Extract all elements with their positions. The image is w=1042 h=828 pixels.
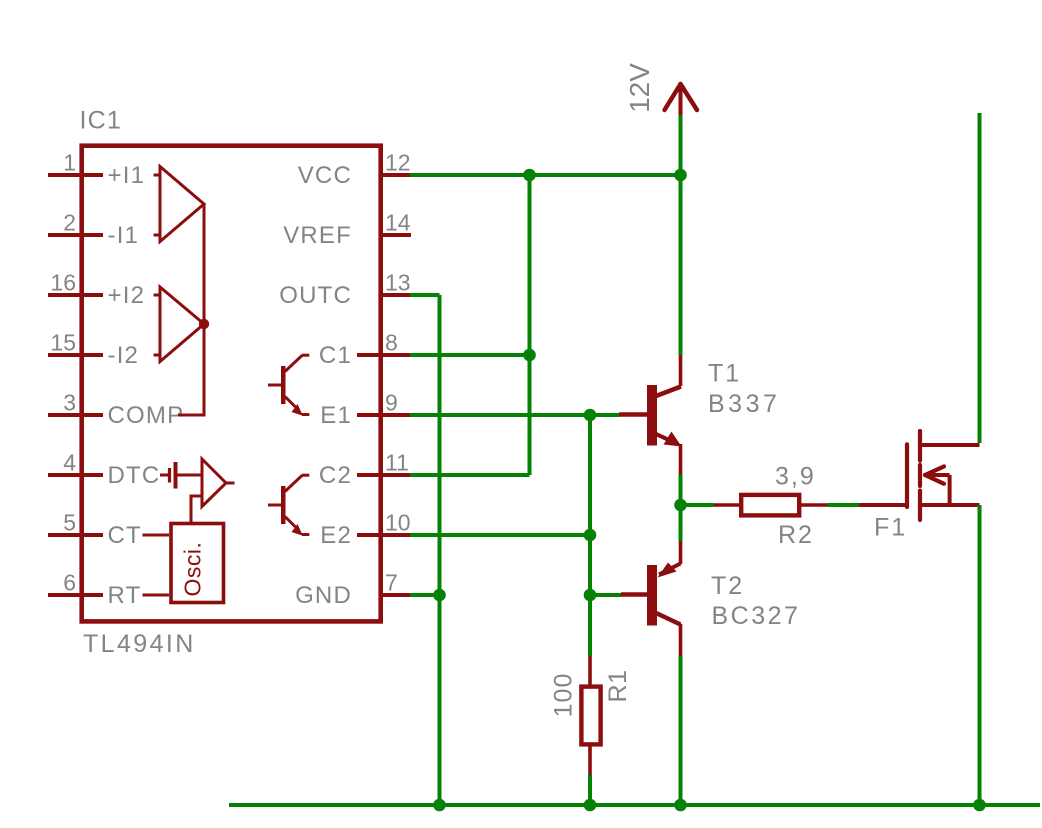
svg-text:3,9: 3,9	[775, 463, 816, 491]
svg-text:C1: C1	[319, 342, 352, 369]
CT to oscillator wire	[143, 534, 170, 537]
svg-text:CT: CT	[108, 522, 142, 549]
pin number 2	[63, 210, 76, 236]
svg-text:-I1: -I1	[108, 222, 140, 249]
svg-text:12: 12	[385, 150, 411, 176]
pin name DTC	[108, 462, 161, 489]
pin number 12	[385, 150, 411, 176]
pin 1 +I1 lead	[48, 173, 103, 177]
op-amp error amplifier 2	[154, 287, 205, 362]
wire 12V stem vertical	[679, 115, 683, 175]
junction dot E2	[584, 529, 597, 542]
pin number 11	[385, 450, 409, 476]
pin number 15	[50, 330, 76, 356]
junction dot VCC branch	[523, 169, 536, 182]
T2 refdes label	[711, 572, 744, 600]
resistor R2	[714, 495, 828, 516]
svg-text:BC327: BC327	[712, 602, 801, 630]
svg-text:5: 5	[63, 510, 76, 536]
pin name -I1	[108, 222, 140, 249]
R2 refdes label	[778, 521, 814, 549]
wire output node to R2	[681, 503, 714, 507]
svg-text:9: 9	[385, 390, 398, 416]
svg-text:100: 100	[550, 673, 578, 718]
transistor T2 BC327	[621, 540, 681, 656]
wire GND pin7 horizontal	[410, 593, 440, 597]
svg-text:F1: F1	[874, 514, 907, 542]
pin number 14	[385, 210, 411, 236]
svg-text:IC1: IC1	[80, 107, 123, 135]
junction dot 12V stem	[674, 169, 687, 182]
svg-text:1: 1	[63, 150, 76, 176]
svg-text:RT: RT	[108, 582, 142, 609]
svg-text:+I1: +I1	[108, 162, 146, 189]
wire T2 base horizontal	[590, 593, 621, 597]
svg-text:VCC: VCC	[298, 162, 352, 189]
TL494IN value label	[83, 630, 196, 658]
svg-text:C2: C2	[319, 462, 352, 489]
pin number 4	[63, 450, 76, 476]
pin 15 -I2 lead	[48, 353, 103, 357]
svg-text:Osci.: Osci.	[180, 542, 206, 597]
wire output node to T2 emitter	[679, 505, 683, 541]
junction dot rail OUTC	[433, 799, 446, 812]
svg-text:3: 3	[63, 390, 76, 416]
svg-text:R2: R2	[778, 521, 814, 549]
pin name +I1	[108, 162, 146, 189]
pin 14 VREF lead	[380, 233, 411, 237]
svg-text:7: 7	[385, 570, 398, 596]
svg-text:11: 11	[385, 450, 409, 476]
T1 refdes label	[708, 360, 741, 388]
op-amp error amplifier 1	[154, 167, 205, 242]
wire E2 pin10 horizontal	[410, 533, 590, 537]
pin 8 C1 lead	[357, 353, 411, 357]
svg-text:TL494IN: TL494IN	[83, 630, 196, 658]
wire branch to pin C1	[410, 353, 530, 357]
svg-text:8: 8	[385, 330, 398, 356]
transistor internal output 1 (C1/E1)	[268, 355, 309, 416]
svg-text:E2: E2	[320, 522, 352, 549]
svg-text:6: 6	[63, 570, 76, 596]
junction dot C1 branch	[523, 349, 536, 362]
svg-text:13: 13	[385, 270, 411, 296]
svg-text:OUTC: OUTC	[279, 282, 352, 309]
pin name RT	[108, 582, 142, 609]
junction dot GND pin	[433, 589, 446, 602]
junction dot T2 base	[584, 589, 597, 602]
transistor internal output 2 (C2/E2)	[268, 475, 309, 536]
pin number 7	[385, 570, 398, 596]
R1 refdes label	[604, 670, 632, 703]
svg-text:COMP: COMP	[108, 402, 185, 429]
IC1 refdes label	[80, 107, 123, 135]
MOSFET F1	[859, 431, 980, 520]
IC U1 IC1 body	[82, 146, 381, 622]
junction dot rail T2 collector	[674, 799, 687, 812]
svg-text:16: 16	[50, 270, 76, 296]
junction dot output node	[674, 499, 687, 512]
pin number 5	[63, 510, 76, 536]
junction dot E1/T1 base	[584, 409, 597, 422]
wire R2 to F1 gate	[828, 503, 860, 507]
svg-text:2: 2	[63, 210, 76, 236]
pin name -I2	[108, 342, 140, 369]
pin number 1	[63, 150, 76, 176]
oscillator box	[171, 524, 224, 603]
T1 value label B337	[708, 390, 780, 418]
pin number 8	[385, 330, 398, 356]
pin 13 OUTC lead	[380, 293, 411, 297]
12V supply arrow	[665, 84, 698, 116]
svg-text:-I2: -I2	[108, 342, 140, 369]
pin 7 GND lead	[380, 593, 411, 597]
wire F1 source down to rail	[978, 505, 982, 805]
pin name VREF	[283, 222, 352, 249]
pin number 9	[385, 390, 398, 416]
pin name GND	[295, 582, 352, 609]
junction dot amplifier outputs	[199, 319, 209, 329]
pin number 3	[63, 390, 76, 416]
F1 refdes label	[874, 514, 907, 542]
junction dot rail R1	[584, 799, 597, 812]
pin 6 RT lead	[48, 593, 103, 597]
pin name OUTC	[279, 282, 352, 309]
wire T1 emitter to output node	[679, 475, 683, 506]
pin number 10	[385, 510, 411, 536]
pin 16 +I2 lead	[48, 293, 103, 297]
DTC buffer triangle	[202, 459, 235, 507]
wire VCC branch down to C1/C2	[528, 175, 532, 475]
pin number 13	[385, 270, 411, 296]
junction dot rail F1 source	[973, 799, 986, 812]
svg-text:R1: R1	[604, 670, 632, 703]
oscillator to DTC buffer wire	[191, 496, 202, 522]
svg-text:+I2: +I2	[108, 282, 146, 309]
pin 10 E2 lead	[357, 533, 411, 537]
pin 12 VCC lead	[380, 173, 411, 177]
pin 11 C2 lead	[357, 473, 411, 477]
COMP feedback line	[178, 204, 204, 415]
svg-text:4: 4	[63, 450, 76, 476]
R2 value label 3,9	[775, 463, 816, 491]
pin name C1	[319, 342, 352, 369]
pin name E2	[320, 522, 352, 549]
pin 2 -I1 lead	[48, 233, 103, 237]
wire T2 collector down to rail	[679, 656, 683, 805]
wire 12V down to T1 collector	[679, 175, 683, 355]
wire E1 pin9 to T1 base	[410, 413, 619, 417]
svg-text:GND: GND	[295, 582, 352, 609]
resistor R1	[581, 656, 600, 775]
T2 value label BC327	[712, 602, 801, 630]
pin name C2	[319, 462, 352, 489]
12V net label	[624, 63, 655, 113]
svg-text:14: 14	[385, 210, 411, 236]
pin number 16	[50, 270, 76, 296]
transistor T1 B337	[619, 355, 682, 475]
svg-text:VREF: VREF	[283, 222, 352, 249]
svg-text:T1: T1	[708, 360, 741, 388]
Osci. label	[180, 542, 206, 597]
svg-text:10: 10	[385, 510, 411, 536]
wire branch to pin C2	[410, 473, 530, 477]
wire OUTC vertical to ground rail	[438, 295, 442, 805]
pin name CT	[108, 522, 142, 549]
pin name VCC	[298, 162, 352, 189]
RT to oscillator wire	[143, 594, 170, 597]
pin name COMP	[108, 402, 185, 429]
svg-text:DTC: DTC	[108, 462, 161, 489]
pin 9 E1 lead	[357, 413, 411, 417]
pin name E1	[320, 402, 352, 429]
pin 3 COMP lead	[48, 413, 103, 417]
wire OUTC pin13 horizontal	[410, 293, 440, 297]
pin number 6	[63, 570, 76, 596]
pin name +I2	[108, 282, 146, 309]
wire emitter net vertical	[588, 415, 592, 656]
ground rail	[229, 803, 1040, 807]
svg-text:15: 15	[50, 330, 76, 356]
wire F1 drain up	[978, 113, 982, 443]
wire R1 bottom to rail	[588, 775, 592, 805]
svg-text:12V: 12V	[624, 63, 655, 113]
DTC comparator input capacitor	[160, 462, 202, 489]
svg-text:B337: B337	[708, 390, 780, 418]
svg-text:E1: E1	[320, 402, 352, 429]
R1 value label 100	[550, 673, 578, 718]
svg-text:T2: T2	[711, 572, 744, 600]
pin 4 DTC lead	[48, 473, 103, 477]
pin 5 CT lead	[48, 533, 103, 537]
wire VCC pin12 to 12V stem	[410, 173, 681, 177]
